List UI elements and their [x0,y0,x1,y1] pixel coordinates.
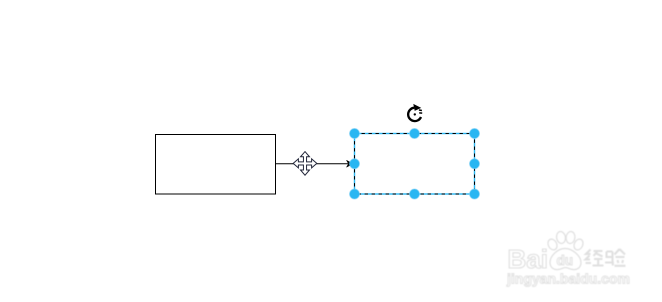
selection handle SE [470,189,480,199]
selection highlight dashed [355,134,475,195]
selection handle SW [350,189,360,199]
svg-text:Bai: Bai [508,244,548,274]
arrowhead [347,160,353,167]
selection handle NE [470,129,480,139]
left rectangle shape [156,135,276,195]
selection handle S [410,189,420,199]
svg-text:jingyan.baidu.com: jingyan.baidu.com [506,271,630,287]
watermark Baidu Jingyan logo [508,231,585,274]
svg-text:du: du [557,253,574,268]
watermark chinese char jing [586,250,604,266]
watermark paw toe 3 [565,231,575,244]
move cursor [293,152,317,176]
rotation handle icon [408,104,422,121]
watermark paw pad [550,249,581,270]
right rectangle shape (selected) [355,134,475,195]
selection handle N [410,129,420,139]
watermark group [506,231,630,287]
selection handle NW [350,129,360,139]
watermark paw toe 1 [546,238,559,252]
watermark paw toe 2 [556,231,567,244]
selection handle E [470,159,480,169]
selection handle W [350,159,360,169]
connector wire [276,163,349,165]
watermark chinese char yan [605,249,626,266]
watermark paw toe 4 [572,238,584,252]
